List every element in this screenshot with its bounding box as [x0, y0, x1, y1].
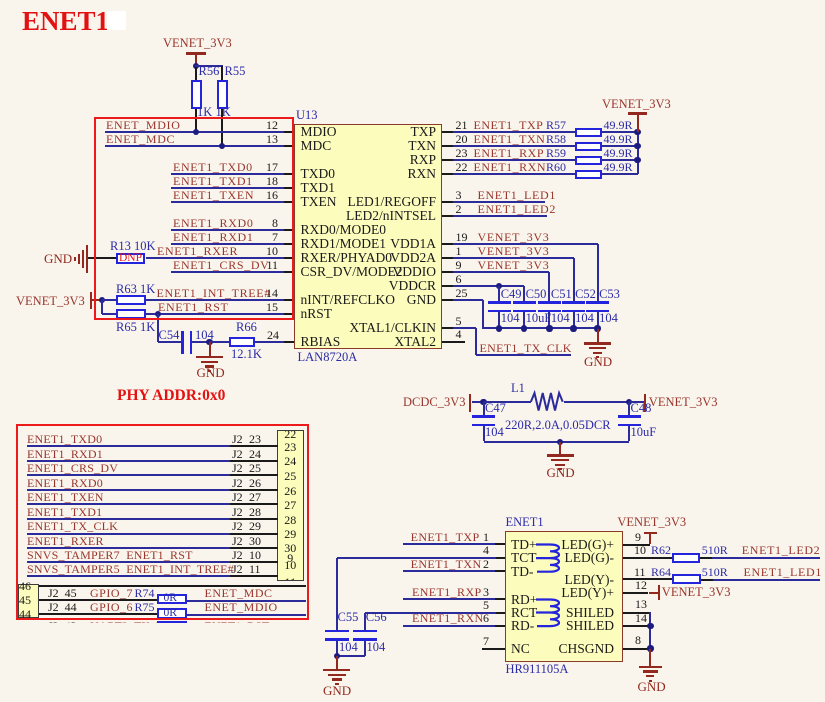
pin J2 10 [230, 561, 278, 563]
connector J2 pins 44-46 body [18, 584, 39, 618]
wire [157, 314, 159, 342]
value 1K [197, 106, 212, 119]
pin name LED(G)+ [496, 538, 614, 552]
pin name RXER/PHYAD0 [301, 251, 393, 265]
wire [146, 257, 285, 259]
pin number 44 [19, 608, 31, 620]
wire [453, 173, 575, 175]
wire [700, 557, 713, 559]
junction [647, 645, 653, 651]
net label ENET1_CRS_DV [173, 259, 269, 271]
wire [453, 201, 545, 203]
net label ENET1_RXP [412, 586, 482, 598]
ground GND (left) [44, 252, 72, 265]
net label ENET1_TXEN [27, 491, 104, 503]
clipped next row [40, 620, 300, 624]
value 104 [339, 641, 358, 654]
pin name TD- [511, 565, 534, 579]
wire [27, 445, 231, 447]
net label ENET1_RXER [27, 535, 104, 547]
wire [171, 173, 285, 175]
net label ENET1_TXP [474, 119, 544, 131]
wire [453, 327, 475, 329]
junction [626, 399, 632, 405]
wire [102, 313, 116, 315]
junction [480, 399, 486, 405]
pin 2 [495, 570, 505, 572]
capacitor C51 [538, 301, 561, 304]
red selection box (bottom) [16, 424, 309, 620]
wire [171, 229, 285, 231]
pin 14 [623, 625, 651, 627]
wire [221, 109, 223, 147]
net label ENET1_TXD0 [173, 161, 253, 173]
pin name TD+ [511, 538, 537, 552]
junction [193, 63, 199, 69]
pin J2 23 [230, 445, 278, 447]
designator R75 [135, 601, 155, 613]
wire [701, 579, 714, 581]
pin name LED(Y)+ [496, 586, 614, 600]
pin name LED(G)- [496, 551, 614, 565]
net label ENET1_RXD0 [27, 477, 103, 489]
pin 18 [284, 187, 294, 189]
pin name SHILED [496, 619, 614, 633]
pin name TXN [318, 139, 436, 153]
pin 21 [456, 119, 468, 131]
pin name XTAL1/CLKIN [318, 321, 436, 335]
pin 15 [284, 313, 294, 315]
wire [573, 312, 575, 329]
pin 13 [284, 145, 294, 147]
designator R59 [546, 147, 566, 159]
capacitor C49 [488, 301, 511, 304]
value 10uF [631, 426, 657, 439]
pin 20 [456, 133, 468, 145]
value 104 [367, 641, 386, 654]
wire [146, 299, 285, 301]
net label ENET1_TXN [474, 133, 546, 145]
net label ENET1_LED1 [478, 189, 556, 201]
pin name RD- [511, 619, 534, 633]
inductor L1 [511, 382, 525, 395]
pin [442, 341, 454, 343]
value 510R [702, 566, 728, 578]
wire [472, 401, 484, 403]
designator R74 [135, 587, 155, 599]
pin 8 [284, 229, 294, 231]
net label ENET_MDIO [106, 119, 181, 131]
pin name LED2/nINTSEL [318, 209, 436, 223]
pin name CHSGND [496, 642, 614, 656]
resistor R58 [575, 142, 602, 152]
wire [453, 145, 575, 147]
pin name RXN [318, 167, 436, 181]
pin 2 [456, 203, 462, 215]
pin 12 [623, 592, 649, 594]
wire [453, 243, 597, 245]
resistor R65 [116, 309, 146, 320]
value 104 [501, 312, 520, 325]
net label ENET1_INT_TREE# [27, 563, 234, 575]
wire [602, 173, 637, 175]
wire [336, 641, 338, 656]
junction [193, 129, 199, 135]
net label ENET1_CRS_DV [27, 462, 118, 474]
pin 1 [456, 245, 462, 257]
power VENET_3V3 (pin12) [649, 592, 658, 594]
wire [453, 271, 549, 273]
power bar DCDC_3V3 [469, 394, 472, 412]
value 49.9R [604, 161, 633, 173]
value 104 [485, 426, 504, 439]
wire [27, 561, 231, 563]
pin name RXD1/MODE1 [301, 237, 387, 251]
junction [155, 311, 161, 317]
net label ENET1_TXEN [173, 189, 254, 201]
value 12.1K [231, 348, 262, 361]
power VENET_3V3 (L1) [644, 394, 647, 412]
wire [403, 543, 496, 545]
pin name RD+ [511, 593, 537, 607]
value 220R,2.0A,0.05DCR [505, 419, 611, 432]
pin [442, 341, 465, 343]
pin 25 [456, 287, 468, 299]
wire [27, 575, 231, 577]
pin 23 [456, 147, 468, 159]
net label VENET_3V3 [478, 231, 550, 243]
pin name RXP [318, 153, 436, 167]
wire [453, 159, 575, 161]
pin 17 [284, 173, 294, 175]
pin 14 [284, 299, 294, 301]
designator ENET1 [506, 516, 544, 529]
pin name RBIAS [301, 335, 341, 349]
pin 9 [623, 544, 651, 546]
wire [171, 271, 285, 273]
net label VENET_3V3 [478, 259, 550, 271]
wire [195, 109, 197, 133]
junction [546, 325, 552, 331]
wire [39, 613, 158, 615]
part LAN8720A [298, 351, 358, 364]
wire [39, 585, 306, 587]
net label ENET1_RXD0 [173, 217, 254, 229]
wire [27, 474, 231, 476]
net label ENET1_RXN [474, 161, 547, 173]
pin number 46 [19, 580, 31, 592]
pin name TXEN [301, 195, 337, 209]
pin name nRST [301, 307, 333, 321]
pin name XTAL2 [318, 335, 436, 349]
wire [221, 66, 223, 80]
pin 10 [284, 257, 294, 259]
wire [187, 614, 306, 616]
wire [39, 599, 158, 601]
wire [27, 503, 231, 505]
resistor R75 (0R) [157, 608, 187, 619]
value 49.9R [604, 147, 633, 159]
value 104 [551, 312, 570, 325]
designator R57 [546, 119, 566, 131]
net label ENET1_RXP [474, 147, 545, 159]
designator R62 [651, 544, 671, 556]
wire [629, 401, 644, 403]
wire [364, 613, 366, 630]
value 104 [575, 312, 594, 325]
power VENET_3V3 (R57-R60) [602, 98, 671, 111]
part HR911105A [506, 663, 569, 676]
junction [219, 143, 225, 149]
wire [187, 600, 306, 602]
pin 4 [456, 328, 462, 340]
pin 10 [623, 557, 673, 559]
pin name VDD2A [318, 251, 436, 265]
resistor R74 (0R) [157, 594, 187, 605]
pin [442, 201, 454, 203]
pin 12 [284, 131, 294, 133]
wire [403, 625, 496, 627]
value 104 [599, 312, 618, 325]
wire [602, 131, 637, 133]
wire [476, 354, 571, 356]
junction [206, 339, 212, 345]
wire [597, 312, 599, 329]
wire [171, 187, 285, 189]
wire [337, 655, 365, 657]
title ENET1 [22, 8, 109, 35]
pin name GND [318, 293, 436, 307]
net label ENET_MDIO [205, 601, 278, 613]
pin name VDDCR [318, 279, 436, 293]
pin name VDD1A [318, 237, 436, 251]
power VENET_3V3 (top) [163, 37, 232, 50]
wire [475, 328, 477, 355]
pin name nINT/REFCLKO [301, 293, 396, 307]
pin name MDC [301, 139, 332, 153]
pin J2 11 [230, 575, 278, 577]
wire [88, 257, 116, 259]
pin 5 [483, 599, 489, 611]
power VENET_3V3 (left) [16, 295, 85, 308]
net label ENET1_LED2 [742, 544, 820, 556]
net label ENET1_RXD1 [27, 448, 103, 460]
capacitor C52 [562, 301, 585, 304]
pin name NC [511, 642, 530, 656]
pin name SHILED [496, 606, 614, 620]
wire [453, 131, 575, 133]
pin name MDIO [301, 125, 337, 139]
net label ENET1_RXN [412, 612, 484, 624]
wire [548, 272, 550, 301]
designator R64 [651, 566, 671, 578]
wire [255, 341, 284, 343]
wire [146, 313, 285, 315]
pin [442, 299, 454, 301]
wire [498, 312, 500, 329]
net label GPIO_6 [48, 601, 77, 613]
ground GND (C54) [209, 342, 211, 356]
wire [27, 489, 231, 491]
designator R58 [546, 133, 566, 145]
resistor R66 [229, 337, 255, 348]
pin J2 27 [230, 503, 278, 505]
pin [442, 215, 454, 217]
junction [496, 325, 502, 331]
net label ENET1_RXER [157, 245, 238, 257]
pin 4 [483, 544, 489, 556]
net label DCDC_3V3 [403, 396, 466, 409]
junction [634, 143, 640, 149]
wire [365, 612, 496, 614]
wire [364, 641, 366, 656]
value 10uF [526, 312, 552, 325]
pin [442, 131, 454, 133]
pin J2 29 [230, 533, 278, 535]
net label ENET1_TX_CLK [27, 520, 118, 532]
ground GND (chassis) [649, 649, 651, 666]
pin [442, 257, 454, 259]
pin [442, 243, 454, 245]
resistor R63 [116, 295, 146, 306]
wire [453, 299, 483, 301]
value 1K [216, 106, 231, 119]
pin [442, 327, 454, 329]
wire [484, 441, 630, 443]
net label GPIO_7 [48, 587, 77, 599]
pin [442, 159, 454, 161]
pin 11 [623, 578, 672, 580]
wire [564, 401, 630, 403]
pin J2 25 [230, 474, 278, 476]
net label ENET_MDC [205, 587, 273, 599]
junction [647, 623, 653, 629]
resistor R57 [575, 128, 602, 138]
capacitor C48 [628, 402, 630, 416]
ground GND (C55/C56) [336, 656, 338, 669]
wire [597, 244, 599, 301]
pin 24 [284, 341, 294, 343]
wire [573, 258, 575, 301]
net label ENET1_RXD1 [173, 231, 254, 243]
pin [442, 271, 454, 273]
pin 1 [495, 543, 505, 545]
wire [210, 341, 230, 343]
wire [403, 570, 496, 572]
ground GND (L1) [559, 442, 561, 454]
junction [634, 157, 640, 163]
wire [523, 286, 525, 301]
wire [192, 341, 209, 343]
cursor box [107, 11, 126, 30]
net label ENET1_TXN [411, 558, 482, 570]
net label ENET1_TXD1 [27, 506, 102, 518]
pin name RXD0/MODE0 [301, 223, 387, 237]
wire [195, 67, 197, 80]
wire [101, 300, 103, 314]
pin J2 24 [230, 460, 278, 462]
capacitor C50 [513, 301, 536, 304]
pin J2 26 [230, 489, 278, 491]
net label ENET1_LED2 [478, 203, 556, 215]
resistor R64 [672, 574, 701, 584]
resistor R62 [672, 553, 700, 563]
pin name TXD1 [301, 181, 336, 195]
IC HR911105A body [505, 531, 623, 662]
wire [337, 557, 496, 559]
pin [442, 285, 454, 287]
net label ENET1_TXD0 [27, 433, 102, 445]
pin name LED1/REGOFF [318, 195, 436, 209]
capacitor C53 [586, 301, 609, 304]
IC U13 body [294, 124, 442, 349]
wire [158, 341, 181, 343]
pin 6 [495, 625, 505, 627]
pin 16 [284, 201, 294, 203]
wire [453, 285, 524, 287]
wire [27, 518, 231, 520]
junction [334, 653, 340, 659]
wire [105, 131, 285, 133]
wire [171, 243, 285, 245]
wire [482, 300, 484, 329]
resistor R56 [191, 80, 202, 109]
text PHY ADDR:0x0 [117, 388, 225, 404]
designator R60 [546, 161, 566, 173]
wire [484, 401, 531, 403]
pin [442, 173, 454, 175]
connector J2 body (partial) [277, 430, 304, 581]
net label ENET_MDC [106, 133, 175, 145]
wire [548, 312, 550, 329]
wire [483, 327, 597, 329]
pin J2 30 [230, 547, 278, 549]
pin name RCT [511, 606, 537, 620]
junction [521, 325, 527, 331]
value 49.9R [604, 119, 633, 131]
capacitor C47 [483, 402, 485, 416]
value 510R [702, 544, 728, 556]
wire [602, 159, 637, 161]
net label VENET_3V3 [478, 245, 550, 257]
pin name TXD0 [301, 167, 336, 181]
pin 11 [284, 271, 294, 273]
wire [602, 145, 637, 147]
pin 7 [284, 243, 294, 245]
wire [195, 65, 223, 67]
pin 5 [456, 315, 462, 327]
resistor R13 (DNP) [110, 240, 156, 253]
net label ENET1_RST [27, 549, 193, 561]
net label ENET1_TXP [411, 531, 480, 543]
wire [105, 145, 285, 147]
pin name CSR_DV/MODE2 [301, 265, 403, 279]
pin 22 [456, 161, 468, 173]
wire [453, 257, 573, 259]
wire [403, 598, 496, 600]
pin J2 28 [230, 518, 278, 520]
designator U13 [296, 109, 318, 122]
wire [171, 201, 285, 203]
resistor R59 [575, 156, 602, 166]
ground GND (caps) [597, 329, 599, 343]
net label ENET1_LED1 [744, 566, 822, 578]
pin 13 [623, 612, 651, 614]
net label ENET1_INT_TREE# [157, 287, 271, 299]
red selection box (top) [94, 117, 294, 320]
pin 3 [456, 189, 462, 201]
pin name LED(Y)- [496, 573, 614, 587]
